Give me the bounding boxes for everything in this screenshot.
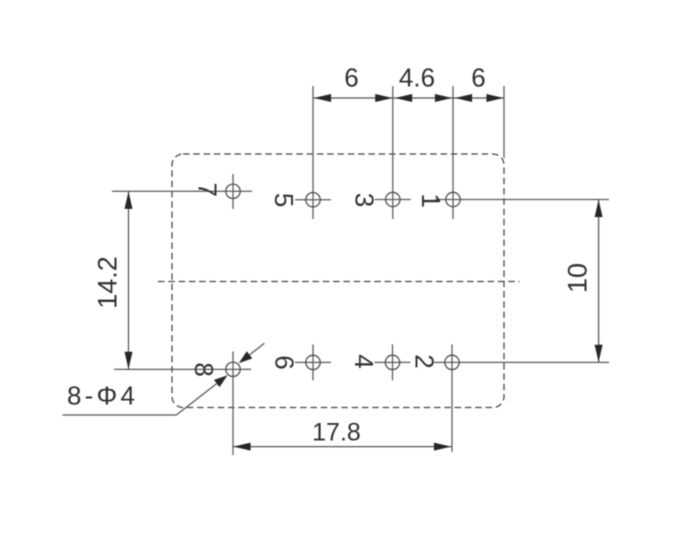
extension line right of pin 2 <box>434 361 609 363</box>
pin 4 (mounting hole) <box>375 344 411 380</box>
left dimension line 14.2 with arrows <box>125 191 133 369</box>
svg-text:7: 7 <box>193 182 223 196</box>
right dimension line 10 with arrows <box>595 200 603 363</box>
svg-text:2: 2 <box>410 354 440 368</box>
extension line through pin 8 <box>114 368 251 370</box>
svg-text:4.6: 4.6 <box>399 63 435 93</box>
pin 3 (mounting hole) <box>375 192 411 206</box>
svg-text:10: 10 <box>563 263 593 293</box>
extension line above pin 1 column <box>452 86 454 219</box>
extension line through pin 7 <box>112 190 252 192</box>
extension line right of pin 1 <box>435 199 609 201</box>
svg-text:8: 8 <box>189 362 219 376</box>
extension line above pin 5 column <box>312 86 314 219</box>
svg-text:5: 5 <box>269 193 299 207</box>
pin 8 (mounting hole) <box>226 352 240 456</box>
leader diagonal upper segment with arrow to pin 8 <box>239 343 265 363</box>
extension line at body right edge <box>503 86 505 158</box>
svg-text:6: 6 <box>471 63 485 93</box>
svg-text:17.8: 17.8 <box>312 419 361 447</box>
svg-text:1: 1 <box>416 193 446 207</box>
svg-text:8-Φ4: 8-Φ4 <box>67 381 138 411</box>
pin 1 (mounting hole) <box>446 192 460 206</box>
svg-text:14.2: 14.2 <box>93 256 123 309</box>
center section line (dashed) <box>158 281 520 283</box>
pin 7 (mounting hole) <box>226 174 240 209</box>
svg-text:4: 4 <box>349 354 379 368</box>
svg-text:6: 6 <box>344 63 358 93</box>
relay body outline (dashed) <box>172 154 504 408</box>
svg-text:6: 6 <box>269 355 299 369</box>
svg-text:3: 3 <box>349 193 379 207</box>
top dimension line with arrows <box>314 94 505 102</box>
pin 2 (mounting hole) <box>445 344 459 452</box>
bottom dimension line 17.8 with arrows <box>233 443 452 451</box>
extension line above pin 3 column <box>392 86 394 219</box>
leader diagonal lower segment with arrow to pin 8 <box>176 375 227 415</box>
leader tail line under label <box>63 414 177 416</box>
pin 5 (mounting hole) <box>295 193 331 207</box>
pin 6 (mounting hole) <box>295 344 331 380</box>
